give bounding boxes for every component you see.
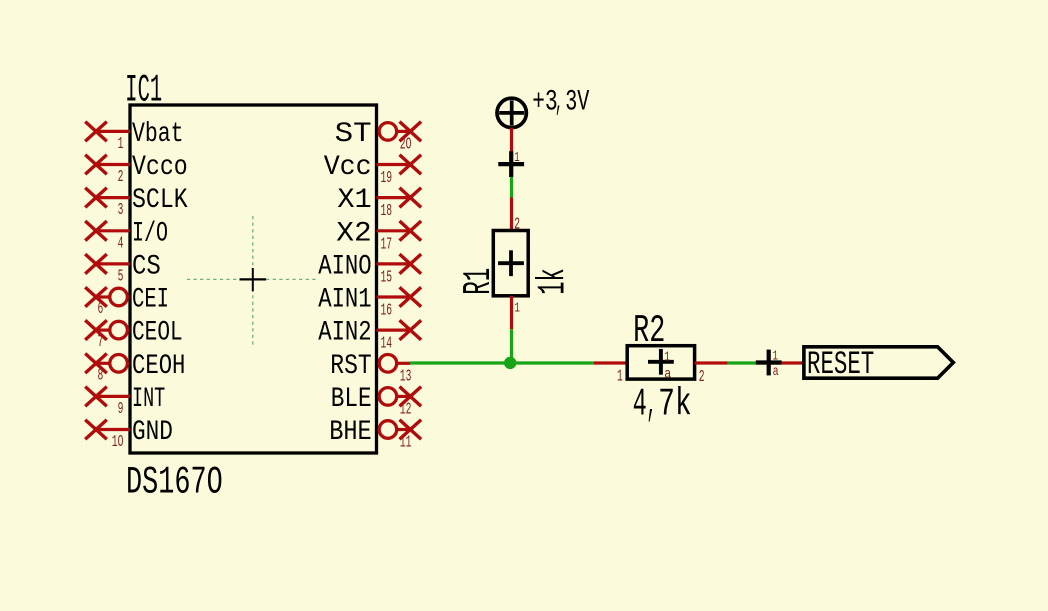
- svg-text:DS167O: DS167O: [126, 461, 223, 505]
- svg-text:Vcc: Vcc: [324, 152, 372, 183]
- svg-text:13: 13: [400, 367, 412, 386]
- IC1 origin crosshair (dashed): [187, 216, 318, 345]
- supply pin wire (red): [510, 128, 513, 165]
- R2 origin cross with gate ref: [648, 349, 674, 383]
- IC1 reference designator label: [125, 69, 162, 113]
- svg-text:Vbat: Vbat: [132, 119, 184, 150]
- resistor R1 body: [493, 231, 528, 296]
- svg-text:BHE: BHE: [329, 417, 372, 448]
- net wire RST to junction to R2 (green): [410, 361, 594, 364]
- svg-text:ST: ST: [335, 119, 372, 150]
- svg-text:AINO: AINO: [318, 251, 372, 282]
- svg-text:+3: +3: [532, 84, 557, 118]
- svg-text:3: 3: [118, 201, 124, 220]
- svg-text:GND: GND: [132, 417, 173, 448]
- IC1 pin 1 (Vbat) left side: [85, 119, 183, 154]
- R2 pin 2 stub (red): [695, 363, 728, 387]
- svg-text:15: 15: [381, 268, 393, 287]
- svg-text:X2: X2: [336, 218, 371, 249]
- svg-text:CEOH: CEOH: [132, 351, 185, 382]
- IC1 pin 1O (GND) left side: [85, 417, 173, 452]
- IC1 pin 5 (CS) left side: [85, 251, 161, 286]
- svg-text:a: a: [773, 365, 779, 380]
- svg-text:1: 1: [514, 151, 519, 166]
- svg-text:CS: CS: [132, 251, 161, 282]
- RESET net name text: [807, 346, 874, 383]
- R1 pin 2 stub (red): [512, 198, 521, 235]
- R1 origin cross: [498, 250, 524, 276]
- svg-text:AIN1: AIN1: [318, 285, 372, 316]
- svg-text:16: 16: [381, 302, 393, 321]
- svg-text:RESET: RESET: [807, 346, 874, 383]
- IC1 pin 4 (I/O) left side: [85, 218, 168, 253]
- RESET label pin stub (red): [769, 361, 804, 364]
- svg-text:AIN2: AIN2: [318, 318, 372, 349]
- IC1 pin 7 (CEOL) left side: [85, 318, 183, 353]
- svg-text:SCLK: SCLK: [132, 185, 188, 216]
- net wire supply to R1 (green): [510, 164, 513, 197]
- svg-text:4: 4: [118, 234, 124, 253]
- IC1 pin 8 (CEOH) left side: [85, 351, 185, 386]
- junction dot: [504, 357, 516, 369]
- RESET label pin cross, pin 1a: [756, 350, 782, 380]
- IC1 pin 13 (RST) right side: [330, 351, 411, 387]
- R1 value 1k (rotated): [532, 268, 576, 295]
- R2 value 4,7k: [633, 383, 692, 427]
- svg-text:CEI: CEI: [132, 285, 169, 316]
- IC1 pin 19 (Vcc) right side: [324, 152, 421, 188]
- svg-text:R2: R2: [633, 309, 665, 353]
- IC1 pin 6 (CEI) left side: [85, 285, 169, 320]
- svg-text:4: 4: [633, 383, 647, 427]
- svg-text:2: 2: [699, 368, 705, 387]
- svg-text:Vcco: Vcco: [132, 152, 188, 183]
- svg-text:1: 1: [118, 135, 124, 154]
- IC1 pin 15 (AINO) right side: [318, 251, 421, 287]
- svg-text:5: 5: [118, 267, 124, 286]
- IC1 pin 3 (SCLK) left side: [85, 185, 188, 220]
- IC1 pin 14 (AIN2) right side: [318, 318, 421, 354]
- svg-text:,: ,: [555, 84, 563, 118]
- net wire R2 to RESET label (green): [728, 361, 769, 364]
- IC1 pin 16 (AIN1) right side: [318, 285, 421, 321]
- net wire R1 to junction (green): [510, 329, 513, 363]
- R1 pin 1 stub (red): [512, 296, 520, 330]
- svg-text:1: 1: [515, 301, 520, 316]
- svg-text:IC1: IC1: [125, 69, 162, 113]
- svg-text:a: a: [664, 368, 671, 383]
- svg-text:CEOL: CEOL: [132, 318, 183, 349]
- IC1 pin 2 (Vcco) left side: [85, 152, 188, 187]
- DS1670 value label: [126, 461, 223, 505]
- IC U1 (DS1670) symbol outline: [130, 105, 377, 453]
- IC1 pin 17 (X2) right side: [336, 218, 421, 254]
- IC1 pin 2O (ST) right side: [335, 119, 421, 155]
- +3,3V net label: [532, 84, 589, 118]
- IC1 pin 9 (INT) left side: [85, 384, 165, 419]
- svg-text:19: 19: [381, 169, 393, 188]
- svg-text:1: 1: [617, 367, 623, 386]
- IC1 pin 11 (BHE) right side: [329, 417, 421, 453]
- R2 pin 1 stub (red): [594, 363, 627, 386]
- resistor R2 body: [627, 346, 694, 379]
- svg-text:2: 2: [118, 168, 124, 187]
- supply symbol +3,3V: [497, 98, 526, 127]
- svg-text:1O: 1O: [112, 433, 124, 452]
- svg-text:14: 14: [381, 335, 393, 354]
- svg-text:17: 17: [381, 235, 393, 254]
- svg-text:1k: 1k: [532, 268, 576, 295]
- svg-text:I/O: I/O: [132, 218, 168, 249]
- svg-text:9: 9: [118, 400, 124, 419]
- svg-text:7k: 7k: [658, 383, 691, 427]
- IC1 pin 18 (X1) right side: [337, 185, 421, 221]
- svg-text:BLE: BLE: [331, 384, 372, 415]
- svg-text:,: ,: [647, 383, 657, 427]
- supply pin connection cross, pin 1: [498, 151, 524, 177]
- svg-text:INT: INT: [132, 384, 165, 415]
- svg-text:R1: R1: [457, 268, 501, 295]
- net flag RESET outline: [804, 347, 953, 378]
- R1 reference label (rotated): [457, 268, 501, 295]
- R2 reference label: [633, 309, 665, 353]
- svg-text:X1: X1: [337, 185, 371, 216]
- svg-text:18: 18: [381, 202, 393, 221]
- svg-text:RST: RST: [330, 351, 371, 382]
- svg-text:3V: 3V: [565, 84, 589, 118]
- IC1 pin 12 (BLE) right side: [331, 384, 421, 420]
- svg-text:1: 1: [773, 350, 778, 365]
